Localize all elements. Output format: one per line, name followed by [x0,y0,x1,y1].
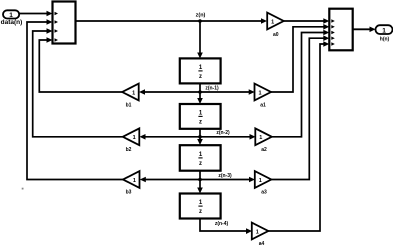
sum block Sum1 (left) [53,2,76,44]
svg-text:z(n-1): z(n-1) [205,85,219,91]
svg-text:a3: a3 [261,190,267,196]
junction z(n-1) [198,90,202,94]
wire tap2 to gain a2 [200,134,256,140]
wire tap1 to gain a1 [200,89,255,95]
wire a3 to Sum2 in4 [271,35,329,179]
gain a4 [252,223,268,240]
svg-text:z(n-4): z(n-4) [215,221,229,227]
svg-text:1: 1 [258,90,261,96]
svg-text:h(n): h(n) [380,36,390,42]
wire Sum1 output (top wire to a0) [76,18,268,24]
sum block Sum2 (right) [329,9,352,51]
svg-text:1: 1 [259,178,262,184]
wire a1 to Sum2 in2 [271,24,329,92]
svg-text:1: 1 [133,135,136,141]
svg-text:z(n-3): z(n-3) [218,173,232,179]
wire tap1 to gain b1 [139,89,200,95]
svg-text:z(n-2): z(n-2) [216,130,230,136]
svg-text:1: 1 [271,19,274,25]
svg-text:z(n): z(n) [196,12,206,18]
svg-text:z: z [199,161,202,167]
gain a3 [255,171,271,188]
wire Delay4 to gain a4 [200,219,252,235]
svg-text:a1: a1 [260,102,266,108]
wire b1 to Sum1 in4 [39,37,122,92]
wire Delay3 to Delay4 [197,171,203,194]
gain b3 [123,171,140,188]
svg-text:1: 1 [133,178,136,184]
wire In1 to Sum1 [19,11,53,17]
svg-text:1: 1 [259,135,262,141]
wire Delay1 to Delay2 [197,83,203,104]
svg-text:a4: a4 [259,241,265,246]
wire a4 to Sum2 in5 [268,41,329,231]
svg-text:b2: b2 [126,147,132,153]
unit delay Z4 (1/z) [180,194,221,219]
svg-text:1: 1 [382,27,386,34]
wire tap3 to gain a3 [200,177,255,183]
unit delay Z1 (1/z) [180,58,221,83]
junction z(n-3) [198,178,202,182]
gain b2 [123,128,140,145]
svg-text:1: 1 [132,90,135,96]
wire branch down into Delay1 [197,21,203,59]
wire tap2 to gain b2 [140,134,201,140]
wire Delay2 to Delay3 [197,129,203,145]
wire b3 to Sum1 in2 [27,19,123,179]
unit delay Z2 (1/z) [180,104,221,129]
wire a0 to Sum2 in1 [284,18,330,24]
wire b2 to Sum1 in3 [33,28,123,137]
svg-text:z: z [199,74,202,80]
svg-text:a2: a2 [261,147,267,153]
svg-text:1: 1 [256,229,259,235]
gain a1 [255,84,272,101]
gain b1 [122,84,139,101]
svg-text:z: z [199,119,202,125]
wire Sum2 to Out1 [353,27,376,33]
svg-text:z: z [199,209,202,215]
wire tap3 to gain b3 [140,177,200,183]
wire a2 to Sum2 in3 [272,30,330,137]
svg-text:b1: b1 [126,102,132,108]
stray mark [22,188,24,190]
junction z(n-2) [198,135,202,139]
gain a0 [267,13,284,30]
svg-text:data(n): data(n) [1,19,23,26]
output port Out1 (oval "1") [376,25,393,34]
svg-text:b3: b3 [126,190,132,196]
junction z(n) [198,19,202,23]
unit delay Z3 (1/z) [180,145,221,171]
svg-text:a0: a0 [273,32,279,38]
input port In1 (oval "1") [3,10,19,19]
gain a2 [255,128,271,145]
